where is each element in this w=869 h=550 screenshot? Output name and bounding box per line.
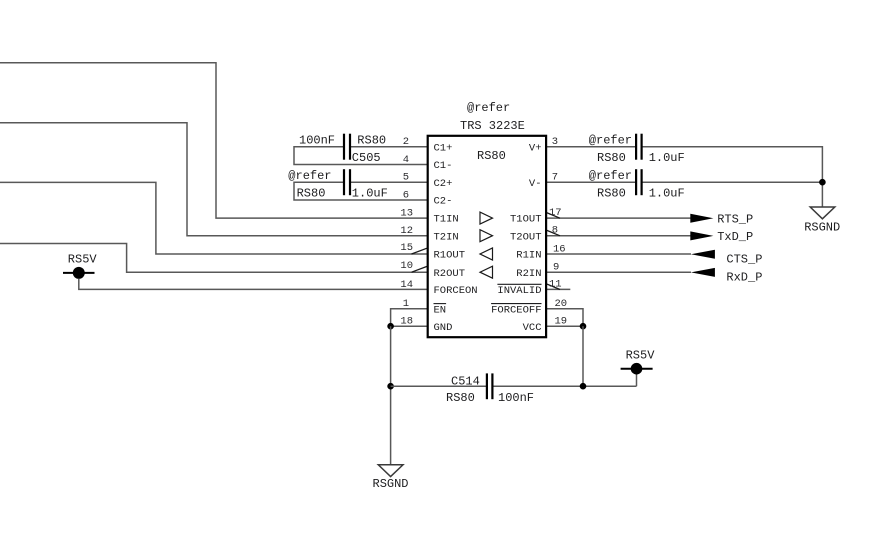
svg-text:FORCEON: FORCEON	[434, 285, 478, 297]
svg-text:CTS_P: CTS_P	[726, 252, 762, 266]
svg-text:6: 6	[403, 190, 409, 202]
svg-text:C1-: C1-	[434, 160, 453, 172]
IC U1 TRS3223E body	[428, 136, 546, 337]
svg-text:T1OUT: T1OUT	[510, 214, 542, 226]
label RS80 of C505	[357, 134, 386, 148]
ground symbol RSGND bottom	[378, 465, 403, 477]
pin number 12	[400, 225, 413, 237]
slash pin 10	[412, 266, 428, 272]
svg-text:4: 4	[403, 154, 409, 166]
label RS5V left	[68, 253, 98, 267]
wire net T2IN from left edge	[0, 123, 428, 236]
pin number 10	[400, 260, 413, 272]
wire pin18 GND	[391, 325, 428, 327]
svg-text:C2+: C2+	[434, 178, 453, 190]
label RS80 of C2 cap	[297, 187, 326, 201]
pin number 14	[400, 279, 413, 291]
junction at C514 right	[580, 383, 587, 390]
svg-text:VCC: VCC	[523, 322, 542, 334]
svg-text:R2IN: R2IN	[516, 268, 541, 280]
svg-text:R1OUT: R1OUT	[434, 250, 466, 262]
wire pin20 FORCEOFF jog	[546, 309, 583, 327]
label RS80 of V- cap	[597, 187, 626, 201]
svg-text:@refer: @refer	[288, 169, 331, 183]
receiver R1 triangle	[480, 248, 493, 260]
svg-text:T1IN: T1IN	[434, 214, 459, 226]
pin number 20	[555, 298, 568, 310]
buffer T2 triangle	[480, 230, 493, 242]
svg-text:C514: C514	[451, 374, 480, 388]
svg-text:100nF: 100nF	[299, 134, 335, 148]
label RSGND bottom	[373, 477, 409, 491]
svg-text:18: 18	[400, 316, 413, 328]
wire GND down to ground	[390, 326, 392, 465]
svg-text:RS5V: RS5V	[68, 253, 98, 267]
value label 1.0uF of C2 cap	[352, 187, 388, 201]
receiver R2 triangle	[480, 266, 493, 278]
buffer T1 triangle	[480, 212, 493, 224]
capacitor V- plates	[636, 169, 642, 195]
svg-text:R2OUT: R2OUT	[434, 268, 466, 280]
label RxD_P	[726, 270, 762, 284]
svg-text:RS80: RS80	[597, 187, 626, 201]
wire net FORCEON from RS5V	[79, 279, 428, 290]
slash pin 15	[412, 248, 428, 254]
label @refer of V+ cap	[589, 134, 632, 148]
svg-text:C2-: C2-	[434, 196, 453, 208]
svg-text:RS80: RS80	[357, 134, 386, 148]
svg-text:@refer: @refer	[589, 134, 632, 148]
svg-text:10: 10	[400, 260, 413, 272]
svg-text:V+: V+	[529, 142, 542, 154]
wire pin19 VCC	[546, 325, 583, 327]
svg-text:TRS 3223E: TRS 3223E	[460, 119, 525, 133]
svg-text:@refer: @refer	[589, 169, 632, 183]
wire RS5V right drop	[636, 374, 638, 387]
label @refer of U1	[467, 101, 510, 115]
pin label T2OUT	[510, 231, 542, 243]
svg-text:RSGND: RSGND	[373, 477, 409, 491]
svg-text:RS80: RS80	[597, 151, 626, 165]
power symbol RS5V right	[621, 363, 653, 375]
svg-text:9: 9	[553, 262, 559, 274]
svg-text:RSGND: RSGND	[804, 220, 840, 234]
svg-text:TxD_P: TxD_P	[717, 230, 753, 244]
junction at GND left	[387, 323, 394, 330]
svg-text:T2IN: T2IN	[434, 231, 459, 243]
pin label R1OUT	[434, 250, 466, 262]
pin number 18	[400, 316, 413, 328]
pin label C1+	[434, 142, 453, 154]
pin number 8	[552, 225, 558, 237]
port arrow CTS_P	[691, 250, 715, 259]
label RS5V right	[626, 348, 656, 362]
svg-text:RTS_P: RTS_P	[717, 212, 753, 226]
svg-text:5: 5	[403, 172, 409, 184]
wire R2IN from RxD_P	[546, 271, 691, 273]
label @refer of C2 cap	[288, 169, 331, 183]
wire C505 left loop to pin4	[294, 147, 428, 165]
svg-text:@refer: @refer	[467, 101, 510, 115]
pin number 6	[403, 190, 409, 202]
power symbol RS5V left	[63, 267, 95, 279]
wire right cap2 to RSGND vertical	[642, 181, 823, 183]
capacitor V+ plates	[636, 134, 642, 160]
wire VCC down to C514	[582, 326, 584, 386]
slash pin 8	[546, 230, 560, 236]
wire T2OUT to TxD_P	[546, 235, 691, 237]
value label 1.0uF of V- cap	[649, 187, 685, 201]
part name TRS 3223E	[460, 119, 525, 133]
wire net R2OUT from left edge	[0, 244, 428, 273]
pin number 17	[549, 207, 562, 219]
label RS80 of C514	[446, 391, 475, 405]
pin label T1OUT	[510, 214, 542, 226]
svg-text:1.0uF: 1.0uF	[352, 187, 388, 201]
pin label R2IN	[516, 268, 541, 280]
label RSGND right	[804, 220, 840, 234]
svg-text:T2OUT: T2OUT	[510, 231, 542, 243]
pin number 9	[553, 262, 559, 274]
wire pin2 to C505	[350, 146, 428, 148]
wire R1IN from CTS_P	[546, 253, 691, 255]
designator C505	[352, 151, 381, 165]
slash pin 17	[546, 212, 560, 218]
value label 100nF of C505	[299, 134, 335, 148]
svg-text:RS5V: RS5V	[626, 348, 656, 362]
pin label FORCEON	[434, 285, 478, 297]
svg-text:RxD_P: RxD_P	[726, 270, 762, 284]
svg-text:20: 20	[555, 298, 568, 310]
pin label INVALID with overline	[497, 284, 541, 297]
svg-text:17: 17	[549, 207, 562, 219]
label TxD_P	[717, 230, 753, 244]
pin number 11	[549, 278, 562, 290]
pin number 16	[553, 244, 566, 256]
pin number 3	[552, 136, 558, 148]
label RS80 of V+ cap	[597, 151, 626, 165]
junction at C514 left	[387, 383, 394, 390]
pin label T1IN	[434, 214, 459, 226]
svg-text:16: 16	[553, 244, 566, 256]
label RS80 inside U1	[477, 149, 506, 163]
pin number 2	[403, 136, 409, 148]
svg-text:19: 19	[555, 316, 568, 328]
svg-text:3: 3	[552, 136, 558, 148]
svg-text:C505: C505	[352, 151, 381, 165]
label @refer of V- cap	[589, 169, 632, 183]
svg-text:C1+: C1+	[434, 142, 453, 154]
wire pin1 EN jog	[391, 309, 428, 327]
wire C514 horizontal	[391, 385, 637, 387]
svg-text:EN: EN	[434, 304, 447, 316]
svg-text:RS80: RS80	[446, 391, 475, 405]
pin label V-	[529, 178, 542, 190]
svg-text:100nF: 100nF	[498, 391, 534, 405]
svg-text:12: 12	[400, 225, 413, 237]
wire C2 cap left loop to pin6	[294, 182, 428, 200]
pin number 15	[400, 242, 413, 254]
pin label V+	[529, 142, 542, 154]
value label 100nF of C514	[498, 391, 534, 405]
svg-text:INVALID: INVALID	[497, 285, 541, 297]
pin label VCC	[523, 322, 542, 334]
pin number 13	[400, 208, 413, 220]
pin label R2OUT	[434, 268, 466, 280]
svg-text:V-: V-	[529, 178, 542, 190]
pin number 5	[403, 172, 409, 184]
port arrow TxD_P	[690, 231, 713, 240]
designator C514	[451, 374, 480, 388]
pin number 19	[555, 316, 568, 328]
svg-text:14: 14	[400, 279, 413, 291]
pin label C2+	[434, 178, 453, 190]
svg-text:15: 15	[400, 242, 413, 254]
wire net T1IN from left edge	[0, 63, 428, 218]
slash pin 11	[546, 284, 560, 290]
label CTS_P	[726, 252, 762, 266]
svg-text:11: 11	[549, 278, 562, 290]
svg-text:8: 8	[552, 225, 558, 237]
capacitor C505 plates	[344, 134, 350, 160]
svg-text:1.0uF: 1.0uF	[649, 151, 685, 165]
svg-text:2: 2	[403, 136, 409, 148]
svg-text:1.0uF: 1.0uF	[649, 187, 685, 201]
wire pin5 to C2 cap	[350, 181, 428, 183]
junction at V- net and ground	[819, 179, 826, 186]
capacitor C2 plates	[344, 169, 350, 195]
wire net R1OUT from left edge	[0, 182, 428, 254]
svg-text:R1IN: R1IN	[516, 250, 541, 262]
port arrow RxD_P	[691, 268, 715, 277]
svg-text:13: 13	[400, 208, 413, 220]
pin label C2-	[434, 196, 453, 208]
pin label FORCEOFF with overline	[491, 304, 541, 317]
wire pin7 to right cap2	[546, 181, 636, 183]
svg-text:7: 7	[552, 172, 558, 184]
svg-text:RS80: RS80	[477, 149, 506, 163]
capacitor C514 plates	[487, 373, 493, 399]
svg-text:RS80: RS80	[297, 187, 326, 201]
wire pin3 to right cap1	[546, 146, 636, 148]
pin number 7	[552, 172, 558, 184]
svg-text:GND: GND	[434, 322, 453, 334]
pin label R1IN	[516, 250, 541, 262]
port arrow RTS_P	[690, 214, 713, 223]
pin label EN with overline	[434, 304, 447, 317]
svg-text:FORCEOFF: FORCEOFF	[491, 304, 541, 316]
wire right cap1 to RSGND corner	[642, 147, 823, 207]
pin label GND	[434, 322, 453, 334]
value label 1.0uF of V+ cap	[649, 151, 685, 165]
pin label C1-	[434, 160, 453, 172]
pin number 4	[403, 154, 409, 166]
wire INVALID stub	[546, 288, 570, 290]
ground symbol RSGND right	[810, 207, 835, 219]
label RTS_P	[717, 212, 753, 226]
wire T1OUT to RTS_P	[546, 217, 691, 219]
junction at VCC right	[580, 323, 587, 330]
pin number 1	[403, 298, 409, 310]
svg-text:1: 1	[403, 298, 409, 310]
pin label T2IN	[434, 231, 459, 243]
